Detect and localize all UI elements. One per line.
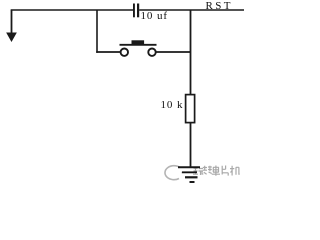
watermark logo	[165, 166, 194, 180]
svg-text:RST: RST	[206, 0, 233, 12]
push button S1	[120, 40, 157, 56]
svg-text:10 uf: 10 uf	[141, 10, 168, 22]
resistor R1	[186, 95, 195, 123]
wire: branch from top net down to switch	[96, 10, 98, 53]
wire: switch left lead	[96, 51, 120, 53]
wire: switch right lead to RST vertical	[156, 51, 191, 53]
wire: RST vertical	[190, 10, 192, 95]
wire: top horizontal RST net (left of capacitor)	[11, 9, 134, 11]
svg-text:10 k: 10 k	[161, 99, 184, 111]
wire: top horizontal RST net (right of capacitor)	[139, 9, 244, 11]
wire: resistor to ground	[190, 123, 192, 168]
capacitor C1	[133, 4, 139, 18]
watermark text (vector strokes approximating CJK glyphs)	[193, 166, 240, 176]
ground (earth)	[178, 167, 200, 182]
ground arrow (top-left)	[7, 10, 16, 42]
